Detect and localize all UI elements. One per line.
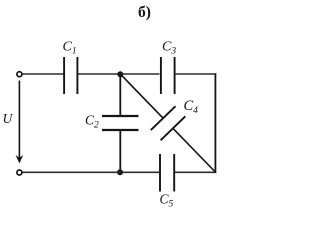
- svg-text:C5: C5: [160, 192, 174, 210]
- capacitor C4: [151, 106, 186, 140]
- wire C3 to top-right corner: [175, 73, 216, 75]
- wire bottom-right to C5: [175, 171, 216, 173]
- wire node A down to C2: [119, 74, 121, 116]
- wire node A to C3: [120, 73, 159, 75]
- node B junction dot: [117, 169, 123, 175]
- voltage arrow U shaft: [18, 81, 20, 158]
- wire C5 to node B: [120, 171, 159, 173]
- capacitor C1: [64, 57, 77, 94]
- wire node B to bottom-left terminal: [23, 171, 121, 173]
- terminal top-left: [17, 72, 22, 77]
- svg-text:C1: C1: [63, 40, 77, 57]
- wire diagonal upper segment (node A to C4): [120, 74, 163, 118]
- terminal bottom-left: [17, 170, 22, 175]
- wire C2 down to node B: [119, 131, 121, 173]
- wire top-left horizontal: [23, 73, 64, 75]
- wire right edge vertical: [214, 73, 216, 173]
- node A junction dot: [117, 71, 123, 77]
- wire diagonal lower segment (C4 to bottom-right corner): [173, 128, 216, 172]
- capacitor C5: [160, 154, 174, 192]
- wire C1 to node A: [78, 73, 120, 75]
- capacitor C2: [102, 116, 139, 130]
- capacitor C3: [161, 57, 175, 94]
- svg-text:C4: C4: [184, 98, 199, 116]
- svg-text:C3: C3: [162, 40, 176, 57]
- svg-text:U: U: [3, 111, 14, 126]
- svg-text:C2: C2: [85, 113, 99, 131]
- svg-text:б): б): [138, 4, 151, 21]
- voltage arrow U head: [16, 155, 24, 164]
